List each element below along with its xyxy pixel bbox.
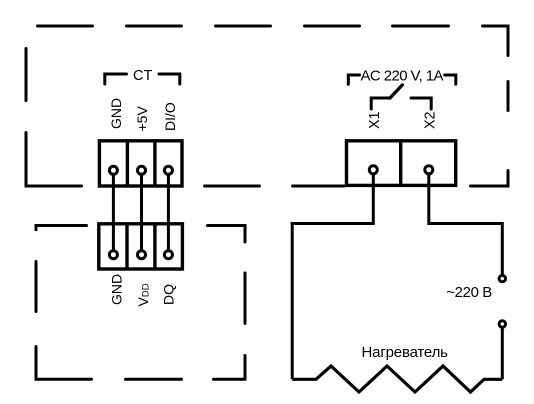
sensor boundary bottom edge dash (126, 378, 182, 381)
sensor boundary top-right corner (208, 226, 246, 243)
wire AC source lower terminal to heater right leg (501, 324, 504, 379)
controller boundary top-right corner (483, 26, 509, 56)
sensor boundary bottom-right corner (214, 356, 246, 380)
sensor block cell dividers (127, 224, 155, 269)
AC source lower terminal (499, 321, 505, 327)
sensor terminal circle pin3 (164, 251, 172, 259)
rating label left bracket (348, 75, 359, 84)
sensor terminal circle pin2 (138, 251, 146, 259)
relay switch right contact (411, 98, 431, 109)
svg-text:CT: CT (133, 68, 152, 84)
svg-text:X1: X1 (367, 111, 383, 129)
sensor boundary right edge dash (244, 273, 247, 324)
heater element resistor zigzag (292, 366, 502, 392)
relay terminal circle X1 (369, 166, 377, 174)
sensor boundary top-left corner (dashed box) (36, 226, 87, 230)
svg-text:+5V: +5V (134, 106, 150, 132)
wire X2 to AC source upper terminal (429, 170, 503, 277)
sensor boundary bottom-left corner (36, 347, 92, 380)
wire CT pin3 to sensor pin3 (167, 170, 170, 255)
wire X1 to heater left leg (292, 170, 373, 379)
relay terminal circle X2 (425, 166, 433, 174)
relay switch blade (390, 85, 402, 98)
connector block CT body (99, 141, 182, 186)
wire CT pin2 to sensor pin2 (140, 170, 143, 255)
CT terminal circle pin2 (138, 166, 146, 174)
sensor connector block body (99, 224, 183, 269)
svg-text:GND: GND (109, 274, 125, 305)
sensor boundary left edge dash (35, 262, 38, 312)
relay block divider (399, 141, 402, 186)
CT terminal circle pin1 (109, 166, 117, 174)
CT label left bracket (105, 74, 127, 84)
svg-text:DI/O: DI/O (162, 102, 178, 131)
rating label right bracket (445, 75, 456, 84)
wire CT pin1 to sensor pin1 (112, 170, 115, 255)
CT block cell dividers (127, 141, 154, 186)
svg-text:~220 В: ~220 В (446, 284, 492, 301)
svg-text:GND: GND (108, 98, 124, 129)
relay switch left contact (371, 98, 390, 109)
sensor terminal circle pin1 (109, 251, 117, 259)
controller boundary left edge dash (25, 49, 28, 101)
svg-text:VDD: VDD (135, 283, 151, 306)
svg-text:DQ: DQ (161, 284, 177, 305)
CT terminal circle pin3 (164, 166, 172, 174)
controller boundary bottom-left corner (26, 133, 82, 187)
controller boundary right edge dash (507, 82, 510, 111)
relay terminal block body (347, 141, 456, 186)
controller boundary bottom edge dashes (205, 185, 345, 188)
controller boundary bottom-right corner (471, 171, 509, 187)
CT label right bracket (159, 74, 180, 84)
AC source upper terminal (499, 275, 505, 281)
controller boundary top edge (dashed) (38, 25, 449, 28)
svg-text:Нагреватель: Нагреватель (362, 344, 449, 361)
svg-text:AC 220 V, 1A: AC 220 V, 1A (361, 67, 444, 84)
svg-text:X2: X2 (423, 111, 439, 129)
